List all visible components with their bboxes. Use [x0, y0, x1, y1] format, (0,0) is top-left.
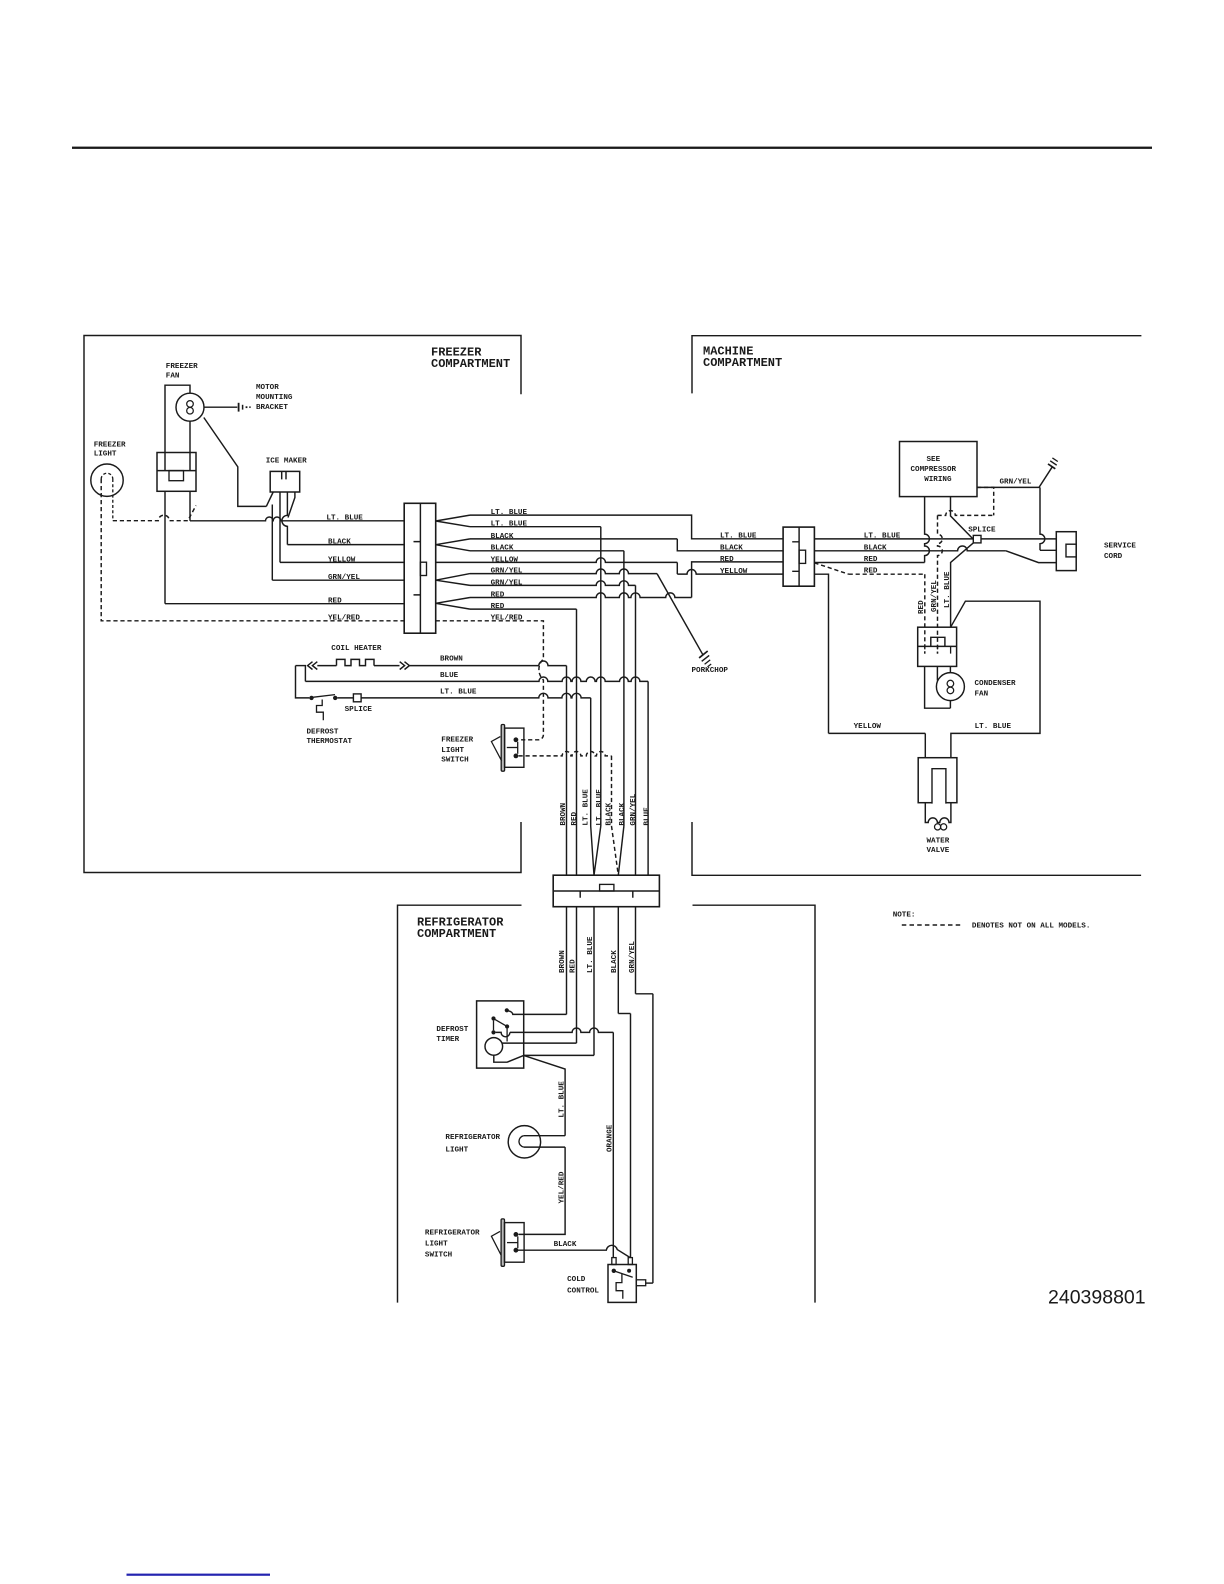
svg-text:BROWN: BROWN	[559, 950, 567, 973]
svg-text:SEE: SEE	[927, 456, 941, 464]
wire YELLOW C2 to water valve	[814, 574, 828, 733]
wire compressor box to splice	[951, 497, 974, 540]
wire RED C2 to compressor box	[814, 562, 924, 564]
wire RED C1 to C2	[470, 593, 692, 598]
porkchop ground symbol	[657, 574, 703, 656]
ice maker	[270, 471, 300, 492]
wire pair BLACK taper into C3	[612, 826, 619, 875]
svg-text:RED: RED	[328, 598, 342, 606]
cold control right tab	[636, 1280, 645, 1286]
wire BLACK dashed switch to C3 drop	[519, 752, 612, 756]
svg-text:RED: RED	[720, 556, 734, 564]
svg-text:THERMOSTAT: THERMOSTAT	[307, 738, 353, 746]
svg-text:FREEZER: FREEZER	[166, 363, 198, 371]
svg-text:FAN: FAN	[166, 373, 180, 381]
svg-text:LT. BLUE: LT. BLUE	[975, 723, 1012, 731]
wire RED C3 to timer motor	[576, 907, 578, 1043]
connector C2 machine compartment bulkhead	[783, 527, 814, 586]
svg-text:SERVICE: SERVICE	[1104, 543, 1136, 551]
defrost timer M2	[477, 1001, 524, 1068]
splice SP2	[973, 535, 981, 543]
svg-text:PORKCHOP: PORKCHOP	[692, 667, 729, 675]
node MACHINE COMPARTMENT border	[692, 336, 1141, 394]
blue footer line	[127, 1574, 271, 1576]
svg-text:COMPARTMENT: COMPARTMENT	[431, 357, 510, 371]
coil heater R1	[296, 665, 307, 667]
wire LT. BLUE splice to compressor block	[951, 543, 974, 627]
wire GRN/YEL freezer side	[272, 579, 404, 581]
svg-text:RED: RED	[918, 600, 926, 614]
condenser fan motor M3	[925, 666, 951, 708]
wire RED freezer side	[164, 491, 166, 603]
wire LT. BLUE C2 to service cord via splice	[814, 538, 1056, 540]
svg-text:YEL/RED: YEL/RED	[558, 1171, 566, 1203]
svg-text:SWITCH: SWITCH	[441, 757, 469, 765]
svg-text:MOTOR: MOTOR	[256, 384, 279, 392]
svg-text:LT. BLUE: LT. BLUE	[587, 936, 595, 973]
timer motor	[485, 1038, 503, 1056]
svg-text:WATER: WATER	[927, 838, 950, 846]
wire LT. BLUE splice to C3 drop	[361, 693, 591, 698]
wire LT. BLUE junction to refrigerator light	[524, 1055, 594, 1135]
svg-text:DENOTES NOT ON ALL MODELS.: DENOTES NOT ON ALL MODELS.	[972, 923, 1090, 931]
svg-text:GRN/YEL: GRN/YEL	[629, 941, 637, 973]
svg-text:YEL/RED: YEL/RED	[328, 614, 360, 622]
svg-text:BLACK: BLACK	[605, 802, 613, 825]
wire GRN/YEL ground drop from ice maker	[271, 505, 273, 581]
freezer fan connector block	[157, 453, 196, 492]
svg-text:FREEZER: FREEZER	[94, 441, 126, 449]
svg-text:LIGHT: LIGHT	[425, 1240, 448, 1248]
compressor terminal block	[918, 627, 957, 666]
freezer light LP1	[91, 464, 123, 496]
svg-text:ORANGE: ORANGE	[607, 1124, 615, 1152]
wire YEL/RED dashed C1 to freezer light switch	[436, 621, 544, 740]
wire RED dashed C2 to compressor block	[814, 563, 848, 574]
svg-text:GRN/YEL: GRN/YEL	[328, 574, 360, 582]
svg-text:BROWN: BROWN	[440, 656, 463, 664]
svg-text:240398801: 240398801	[1048, 1287, 1146, 1309]
svg-text:LT. BLUE: LT. BLUE	[440, 688, 477, 696]
node REFRIGERATOR COMPARTMENT border	[398, 905, 522, 1302]
node FREEZER COMPARTMENT border	[84, 336, 521, 873]
wire BROWN heater to C3	[409, 661, 566, 666]
freezer light switch S2	[501, 725, 504, 772]
svg-text:BROWN: BROWN	[560, 802, 568, 825]
svg-text:BLUE: BLUE	[643, 807, 651, 826]
svg-text:BLACK: BLACK	[619, 802, 627, 825]
wire BLUE to C3	[304, 666, 306, 682]
svg-text:NOTE:: NOTE:	[893, 912, 916, 920]
svg-text:BRACKET: BRACKET	[256, 404, 288, 412]
svg-text:CONDENSER: CONDENSER	[975, 680, 1016, 688]
svg-text:LT. BLUE: LT. BLUE	[583, 789, 591, 826]
wire RED into timer motor	[502, 1042, 576, 1044]
svg-text:MOUNTING: MOUNTING	[256, 394, 293, 402]
wire YEL/RED dashed: freezer light to connector	[101, 479, 404, 621]
connector C3 freezer/refrigerator bulkhead	[553, 875, 659, 907]
svg-text:TIMER: TIMER	[436, 1036, 459, 1044]
splice SP1	[353, 694, 361, 702]
wire BLACK C1 to C3 drop	[470, 550, 624, 552]
wire LT. BLUE C3 to timer junction	[593, 907, 595, 1056]
ice maker pin 2 lead (YELLOW)	[279, 492, 281, 562]
svg-text:RED: RED	[571, 811, 579, 825]
svg-text:FAN: FAN	[975, 691, 989, 699]
wire BROWN C3 to defrost timer	[566, 907, 568, 1015]
refrigerator light LP2	[508, 1126, 540, 1158]
svg-text:LIGHT: LIGHT	[445, 1146, 468, 1154]
wire RED C1 to C3 drop	[470, 608, 577, 610]
wire pair LT. BLUE taper into C3	[591, 826, 601, 875]
defrost thermostat S1	[309, 696, 313, 700]
wire BLACK freezer side	[287, 544, 404, 546]
wire YELLOW freezer side	[280, 561, 404, 563]
svg-text:COLD: COLD	[567, 1276, 586, 1284]
wire GRN/YEL C3 to cold control	[635, 907, 637, 994]
wire timer motor to LT. BLUE junction	[494, 1055, 524, 1062]
wire pair BLACK from C1 pin 2	[436, 539, 470, 551]
svg-text:FREEZER: FREEZER	[441, 737, 473, 745]
wire pair LT. BLUE from C1 pin 1	[436, 515, 470, 527]
water valve solenoid L1	[918, 758, 957, 803]
wire ORANGE timer to cold control	[496, 1032, 510, 1036]
svg-text:DEFROST: DEFROST	[436, 1026, 468, 1034]
svg-text:GRN/YEL: GRN/YEL	[630, 793, 638, 825]
wire LT. BLUE C1 to C3 drop	[600, 527, 602, 826]
svg-text:SPLICE: SPLICE	[968, 526, 996, 534]
svg-text:SWITCH: SWITCH	[425, 1251, 453, 1259]
svg-text:COIL HEATER: COIL HEATER	[331, 645, 382, 653]
svg-text:LT. BLUE: LT. BLUE	[944, 571, 952, 608]
wire fan case to ice maker ground junction	[204, 418, 266, 507]
svg-text:VALVE: VALVE	[927, 847, 950, 855]
connector C1 freezer compartment bulkhead	[404, 503, 436, 633]
svg-text:LIGHT: LIGHT	[441, 747, 464, 755]
svg-text:CORD: CORD	[1104, 553, 1123, 561]
wire dashed light line to fan block (not on all models)	[113, 506, 196, 521]
wire LT. BLUE thermostat to splice	[337, 697, 353, 699]
svg-text:COMPRESSOR: COMPRESSOR	[911, 466, 957, 474]
svg-text:BLACK: BLACK	[720, 545, 743, 553]
motor mounting bracket ground symbol	[204, 406, 237, 408]
svg-text:CONTROL: CONTROL	[567, 1288, 599, 1296]
wire GRN/YEL down to service cord	[1040, 487, 1045, 550]
svg-text:COMPARTMENT: COMPARTMENT	[417, 927, 496, 941]
cold control S4	[608, 1265, 636, 1303]
svg-text:COMPARTMENT: COMPARTMENT	[703, 356, 782, 370]
wire YEL/RED light to switch	[519, 1147, 566, 1234]
wire GRN/YEL dashed to compressor block	[977, 487, 994, 515]
ice maker pin 4 lead	[288, 492, 295, 518]
svg-text:REFRIGERATOR: REFRIGERATOR	[445, 1134, 500, 1142]
svg-text:BLUE: BLUE	[440, 672, 459, 680]
svg-text:LT. BLUE: LT. BLUE	[326, 515, 363, 523]
svg-text:ICE MAKER: ICE MAKER	[266, 457, 307, 465]
wire LT. BLUE C1 to C2	[470, 515, 692, 533]
wire GRN/YEL C1 to C3 drop	[470, 581, 636, 586]
wire freezer light right lead (dashed)	[112, 479, 114, 515]
svg-text:BLACK: BLACK	[328, 539, 351, 547]
svg-text:LIGHT: LIGHT	[94, 451, 117, 459]
wire LT. BLUE defrost circuit	[296, 666, 310, 698]
wire pair RED from C1 pin 5	[436, 598, 470, 610]
wire BLACK switch to cold control	[517, 1245, 630, 1257]
svg-text:YELLOW: YELLOW	[720, 568, 748, 576]
svg-text:BLACK: BLACK	[554, 1241, 577, 1249]
service cord plug P1	[1056, 532, 1076, 571]
wire BLACK C2 to service cord	[814, 546, 1006, 551]
wire YELLOW C1 to C2	[436, 558, 678, 563]
wire BLACK C3 to cold control	[617, 907, 619, 1014]
wire LT. BLUE compressor block to water valve loop	[951, 601, 1040, 758]
ice maker pin 3 lead (BLACK) with loop around LT.BLUE	[282, 492, 287, 545]
svg-text:BLACK: BLACK	[611, 950, 619, 973]
wire LT. BLUE freezer side	[189, 491, 191, 521]
svg-text:LT. BLUE: LT. BLUE	[596, 789, 604, 826]
svg-text:DEFROST: DEFROST	[307, 728, 339, 736]
svg-text:LT. BLUE: LT. BLUE	[558, 1081, 566, 1118]
svg-text:GRN/YEL: GRN/YEL	[931, 580, 939, 612]
refrigerator light switch S3	[501, 1219, 504, 1266]
svg-text:LT. BLUE: LT. BLUE	[720, 533, 757, 541]
wire GRN/YEL to porkchop ground	[470, 569, 657, 574]
ice maker pin 1 lead to ground bus	[266, 492, 273, 506]
svg-text:YELLOW: YELLOW	[328, 556, 356, 564]
wire BLACK C1 to C2	[470, 538, 677, 540]
node SEE COMPRESSOR WIRING box	[900, 442, 978, 497]
freezer fan motor FM	[165, 385, 190, 452]
top horizontal rule	[72, 147, 1152, 149]
svg-text:WIRING: WIRING	[924, 476, 952, 484]
svg-text:YELLOW: YELLOW	[854, 723, 882, 731]
svg-text:REFRIGERATOR: REFRIGERATOR	[425, 1229, 480, 1237]
svg-text:SPLICE: SPLICE	[345, 706, 373, 714]
wire pair GRN/YEL from C1 pin 4	[436, 574, 470, 586]
chassis ground symbol (service cord side)	[1048, 464, 1055, 469]
wire GRN/YEL box to chassis ground	[977, 467, 1052, 488]
svg-text:RED: RED	[570, 959, 578, 973]
svg-text:GRN/YEL: GRN/YEL	[1000, 479, 1032, 487]
